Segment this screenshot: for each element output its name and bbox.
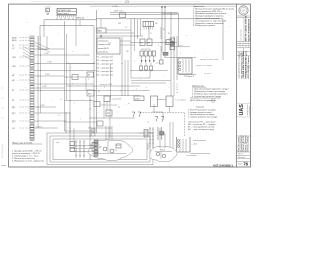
svg-text:ПР1 ПР2 ПР3: ПР1 ПР2 ПР3	[141, 49, 151, 51]
svg-text:КТ2: КТ2	[88, 93, 91, 95]
svg-text:Х1 — цепь упр. №1: Х1 — цепь упр. №1	[97, 56, 113, 59]
svg-text:К2: К2	[12, 100, 14, 102]
svg-text:4 механизма: 4 механизма	[186, 155, 197, 157]
svg-text:UAS: UAS	[239, 104, 245, 116]
svg-text:0 ЛВУ-3: 0 ЛВУ-3	[36, 126, 42, 128]
svg-text:к2: к2	[58, 115, 60, 117]
svg-text:х4: х4	[176, 92, 178, 94]
svg-text:ЩОБ: ЩОБ	[12, 40, 17, 42]
svg-text:к1: к1	[60, 99, 62, 101]
svg-text:1 и 2 скорость: 1 и 2 скорость	[175, 100, 186, 102]
svg-text:ВНУТР. СХЕМА ЭЛЕКТР.: ВНУТР. СХЕМА ЭЛЕКТР.	[245, 15, 248, 41]
svg-text:4.07.3-56-8(0)-1: 4.07.3-56-8(0)-1	[2, 143, 4, 158]
svg-text:1: 1	[86, 55, 87, 57]
svg-text:Р1: Р1	[141, 42, 143, 44]
svg-text:4.07.3-56-8(0)-1 котел: 4.07.3-56-8(0)-1 котел	[247, 56, 250, 79]
svg-text:2,5: 2,5	[125, 27, 127, 29]
svg-text:ДЕ-25-14ГМ по спецификации.: ДЕ-25-14ГМ по спецификации.	[190, 99, 217, 102]
svg-text:котла ДЕ-25: котла ДЕ-25	[98, 48, 109, 50]
svg-text:9: 9	[104, 87, 105, 89]
svg-text:ДТ3: ДТ3	[12, 121, 16, 123]
svg-text:автоматика: автоматика	[98, 40, 109, 42]
svg-text:Х4 — цепь упр. №4: Х4 — цепь упр. №4	[97, 66, 113, 69]
svg-text:при откл. эл. энергии: при откл. эл. энергии	[196, 65, 212, 67]
svg-text:переход на автом. режим: переход на автом. режим	[200, 59, 219, 61]
svg-text:аппаратуры: аппаратуры	[249, 105, 251, 115]
svg-text:5: 5	[74, 103, 75, 105]
svg-text:~380В, 50Гц: ~380В, 50Гц	[113, 10, 123, 12]
svg-text:ввод 1 ввод 2: ввод 1 ввод 2	[58, 13, 69, 15]
svg-text:Х2 — цепь упр. №2: Х2 — цепь упр. №2	[97, 59, 113, 62]
svg-text:Указания:: Указания:	[196, 107, 205, 109]
svg-text:— рт 1: — рт 1	[192, 144, 198, 146]
svg-text:1 поз.: 1 поз.	[178, 45, 183, 47]
svg-text:П.1 Часть 1: П.1 Часть 1	[184, 76, 194, 78]
svg-text:ПР: ПР	[98, 91, 100, 93]
svg-text:СВ1: СВ1	[12, 57, 16, 59]
svg-text:3: 3	[88, 79, 89, 81]
svg-text:щит: щит	[56, 142, 59, 144]
svg-text:8: 8	[180, 53, 181, 55]
svg-text:КМ1: КМ1	[118, 23, 121, 25]
svg-text:к цепям сигнализации: к цепям сигнализации	[100, 105, 117, 107]
svg-text:М: М	[243, 9, 245, 12]
svg-text:С2: С2	[12, 48, 14, 50]
svg-text:Н.контр. Утверд.: Н.контр. Утверд.	[247, 136, 249, 151]
svg-text:вн: вн	[128, 103, 130, 105]
svg-text:ЩС — щит собственных нужд.: ЩС — щит собственных нужд.	[188, 129, 215, 131]
svg-text:аб: аб	[147, 122, 149, 124]
svg-text:ЩОА: ЩОА	[12, 36, 17, 39]
svg-text:ЩИТА УПРАВЛЕНИЯ: ЩИТА УПРАВЛЕНИЯ	[247, 18, 250, 41]
svg-text:4: 4	[158, 45, 159, 47]
svg-text:4. зажимы проверить при наладк: 4. зажимы проверить при наладке.	[188, 117, 218, 119]
svg-text:4. Маркировка по табл. соедине: 4. Маркировка по табл. соединений.	[12, 160, 44, 163]
svg-text:8: 8	[146, 87, 147, 89]
svg-text:Х3 — цепь упр. №3: Х3 — цепь упр. №3	[97, 63, 113, 66]
svg-text:на сх.: на сх.	[116, 145, 121, 147]
svg-text:ЩС АВР-0,4кВ: ЩС АВР-0,4кВ	[58, 9, 72, 12]
svg-text:РУ2-3: РУ2-3	[160, 150, 165, 152]
svg-text:8. Размеры для справок.: 8. Размеры для справок.	[193, 25, 216, 27]
svg-text:Х6 — цепь упр. №6: Х6 — цепь упр. №6	[97, 74, 113, 77]
svg-text:Листов 1: Листов 1	[238, 157, 245, 159]
svg-text:а: а	[72, 51, 73, 53]
svg-text:Т1: Т1	[150, 33, 152, 35]
svg-text:3~380В: 3~380В	[112, 6, 119, 8]
svg-text:n: n	[186, 35, 187, 37]
svg-text:РП2: РП2	[108, 43, 111, 45]
svg-text:К1: К1	[12, 90, 14, 92]
svg-text:Х5 — цепь упр. №5: Х5 — цепь упр. №5	[97, 70, 113, 73]
svg-text:Лист 1: Лист 1	[238, 154, 243, 156]
svg-text:С1: С1	[12, 45, 14, 47]
svg-text:шина упр. 220В: шина упр. 220В	[100, 84, 113, 86]
svg-text:ДТ2: ДТ2	[12, 113, 16, 115]
svg-text:4.07.3-56-8(0)-1: 4.07.3-56-8(0)-1	[213, 164, 233, 168]
svg-text:СВ2: СВ2	[12, 66, 16, 68]
svg-text:от щита: от щита	[45, 7, 51, 9]
svg-text:76: 76	[243, 162, 248, 167]
svg-text:РВ1: РВ1	[126, 51, 129, 53]
svg-text:ДТ1: ДТ1	[12, 107, 16, 109]
svg-text:Н2: Н2	[12, 80, 14, 82]
svg-text:2: 2	[136, 89, 137, 91]
svg-text:рейка: рейка	[135, 97, 140, 100]
svg-text:к щиту КИП: к щиту КИП	[112, 99, 122, 101]
svg-text:блок БУ-21: блок БУ-21	[98, 52, 108, 54]
svg-text:в: в	[72, 83, 73, 85]
svg-text:Согласовано: Согласовано	[241, 28, 243, 41]
svg-text:1 НР2-10: 1 НР2-10	[76, 18, 85, 20]
svg-text:7: 7	[80, 119, 81, 121]
svg-text:Н1: Н1	[12, 75, 14, 77]
svg-text:5: 5	[120, 91, 121, 93]
svg-text:см. лист 2: см. лист 2	[204, 73, 212, 75]
